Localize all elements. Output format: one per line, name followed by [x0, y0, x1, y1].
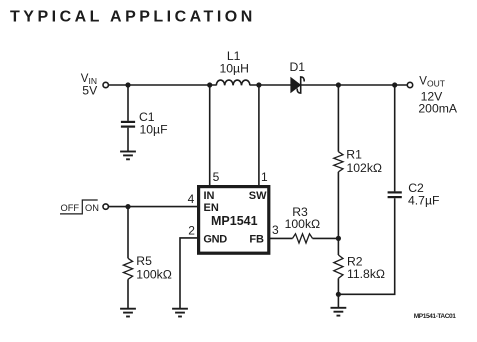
svg-text:10µH: 10µH: [220, 61, 249, 75]
svg-text:D1: D1: [290, 60, 306, 74]
wire C1 to ground: [127, 128, 129, 152]
terminal EN input: [103, 204, 108, 209]
ground (IC GND): [172, 309, 188, 317]
wire C2 to bottom node: [338, 198, 394, 294]
wire R3 to FB node: [313, 237, 339, 239]
pin number 3: [272, 223, 279, 237]
node FB junction: [336, 236, 341, 241]
resistor R2 11.8k: [334, 255, 385, 281]
svg-text:4: 4: [188, 192, 195, 206]
resistor R5 100k: [123, 254, 171, 281]
svg-text:OFF: OFF: [61, 203, 80, 213]
svg-text:IN: IN: [204, 190, 215, 202]
node R5 top junction: [125, 204, 130, 209]
svg-text:200mA: 200mA: [418, 102, 457, 116]
wire diode cathode to VOUT terminal: [301, 84, 407, 86]
svg-text:ON: ON: [85, 203, 99, 213]
wire bottom node to ground: [337, 294, 339, 308]
op-amp U1 MP1541 IC body: [199, 187, 269, 254]
svg-text:10µF: 10µF: [140, 122, 168, 136]
wire R1 to FB node: [337, 172, 339, 239]
svg-text:102kΩ: 102kΩ: [347, 161, 383, 175]
svg-text:MP1541: MP1541: [211, 214, 258, 228]
terminal VIN: [103, 82, 108, 87]
pin number 1: [261, 170, 268, 184]
svg-text:1: 1: [261, 170, 268, 184]
svg-text:EN: EN: [204, 202, 219, 214]
pin number 5: [213, 170, 220, 184]
node C2 top junction: [392, 82, 397, 87]
resistor R1 102k: [334, 148, 382, 175]
svg-text:5V: 5V: [82, 84, 98, 98]
svg-text:5: 5: [213, 170, 220, 184]
node bottom junction: [336, 292, 341, 297]
capacitor C2 4.7uF: [388, 181, 440, 207]
terminal VOUT: [407, 82, 412, 87]
ground (output divider): [331, 308, 347, 316]
capacitor C1 10uF: [121, 110, 168, 136]
svg-text:TYPICAL APPLICATION: TYPICAL APPLICATION: [10, 9, 256, 26]
node R1 top junction: [336, 82, 341, 87]
svg-text:3: 3: [272, 223, 279, 237]
svg-text:MP1541-TAC01: MP1541-TAC01: [414, 313, 457, 320]
svg-text:4.7µF: 4.7µF: [408, 194, 439, 208]
label VIN 5V: [81, 73, 98, 98]
svg-text:SW: SW: [249, 190, 267, 202]
wire R2 to bottom node: [337, 278, 339, 294]
wire VIN rail (terminal to inductor): [109, 84, 217, 86]
wire rail to C1: [127, 85, 129, 121]
label MP1541-TAC01: [414, 313, 457, 320]
wire pin5 to rail: [209, 85, 211, 186]
wire rail to R1: [337, 85, 339, 152]
node pin5/inductor junction: [207, 82, 212, 87]
pin number 2: [188, 224, 195, 238]
resistor R3 100k: [285, 205, 321, 243]
title TYPICAL APPLICATION: [10, 9, 256, 26]
wire rail to C2: [394, 85, 396, 191]
svg-text:2: 2: [188, 224, 195, 238]
wire EN terminal to pin 4: [109, 206, 198, 208]
wire FB node to R2: [337, 238, 339, 255]
svg-text:FB: FB: [249, 234, 264, 246]
wire inductor to diode anode: [250, 84, 291, 86]
svg-text:GND: GND: [203, 234, 227, 246]
label VOUT 12V 200mA: [418, 75, 457, 115]
inductor L1 10uH: [216, 49, 250, 85]
wire EN node to R5: [127, 207, 129, 259]
ground (C1): [120, 152, 136, 160]
wire pin3 FB to R3: [269, 237, 292, 239]
diode D1 (Schottky): [290, 60, 306, 93]
svg-text:R5: R5: [136, 254, 152, 268]
wire pin2 GND to ground: [180, 238, 198, 309]
ground (R5): [120, 309, 136, 317]
pin number 4: [188, 192, 195, 206]
wire pin1 to rail: [258, 85, 260, 186]
svg-text:100kΩ: 100kΩ: [136, 267, 172, 281]
svg-text:11.8kΩ: 11.8kΩ: [347, 267, 385, 281]
svg-text:R1: R1: [346, 148, 362, 162]
wire R5 to ground: [127, 279, 129, 308]
svg-text:100kΩ: 100kΩ: [285, 217, 321, 231]
switch annotation OFF/ON step: [60, 200, 99, 214]
node C1 top junction: [125, 82, 130, 87]
node pin1/inductor junction: [256, 82, 261, 87]
